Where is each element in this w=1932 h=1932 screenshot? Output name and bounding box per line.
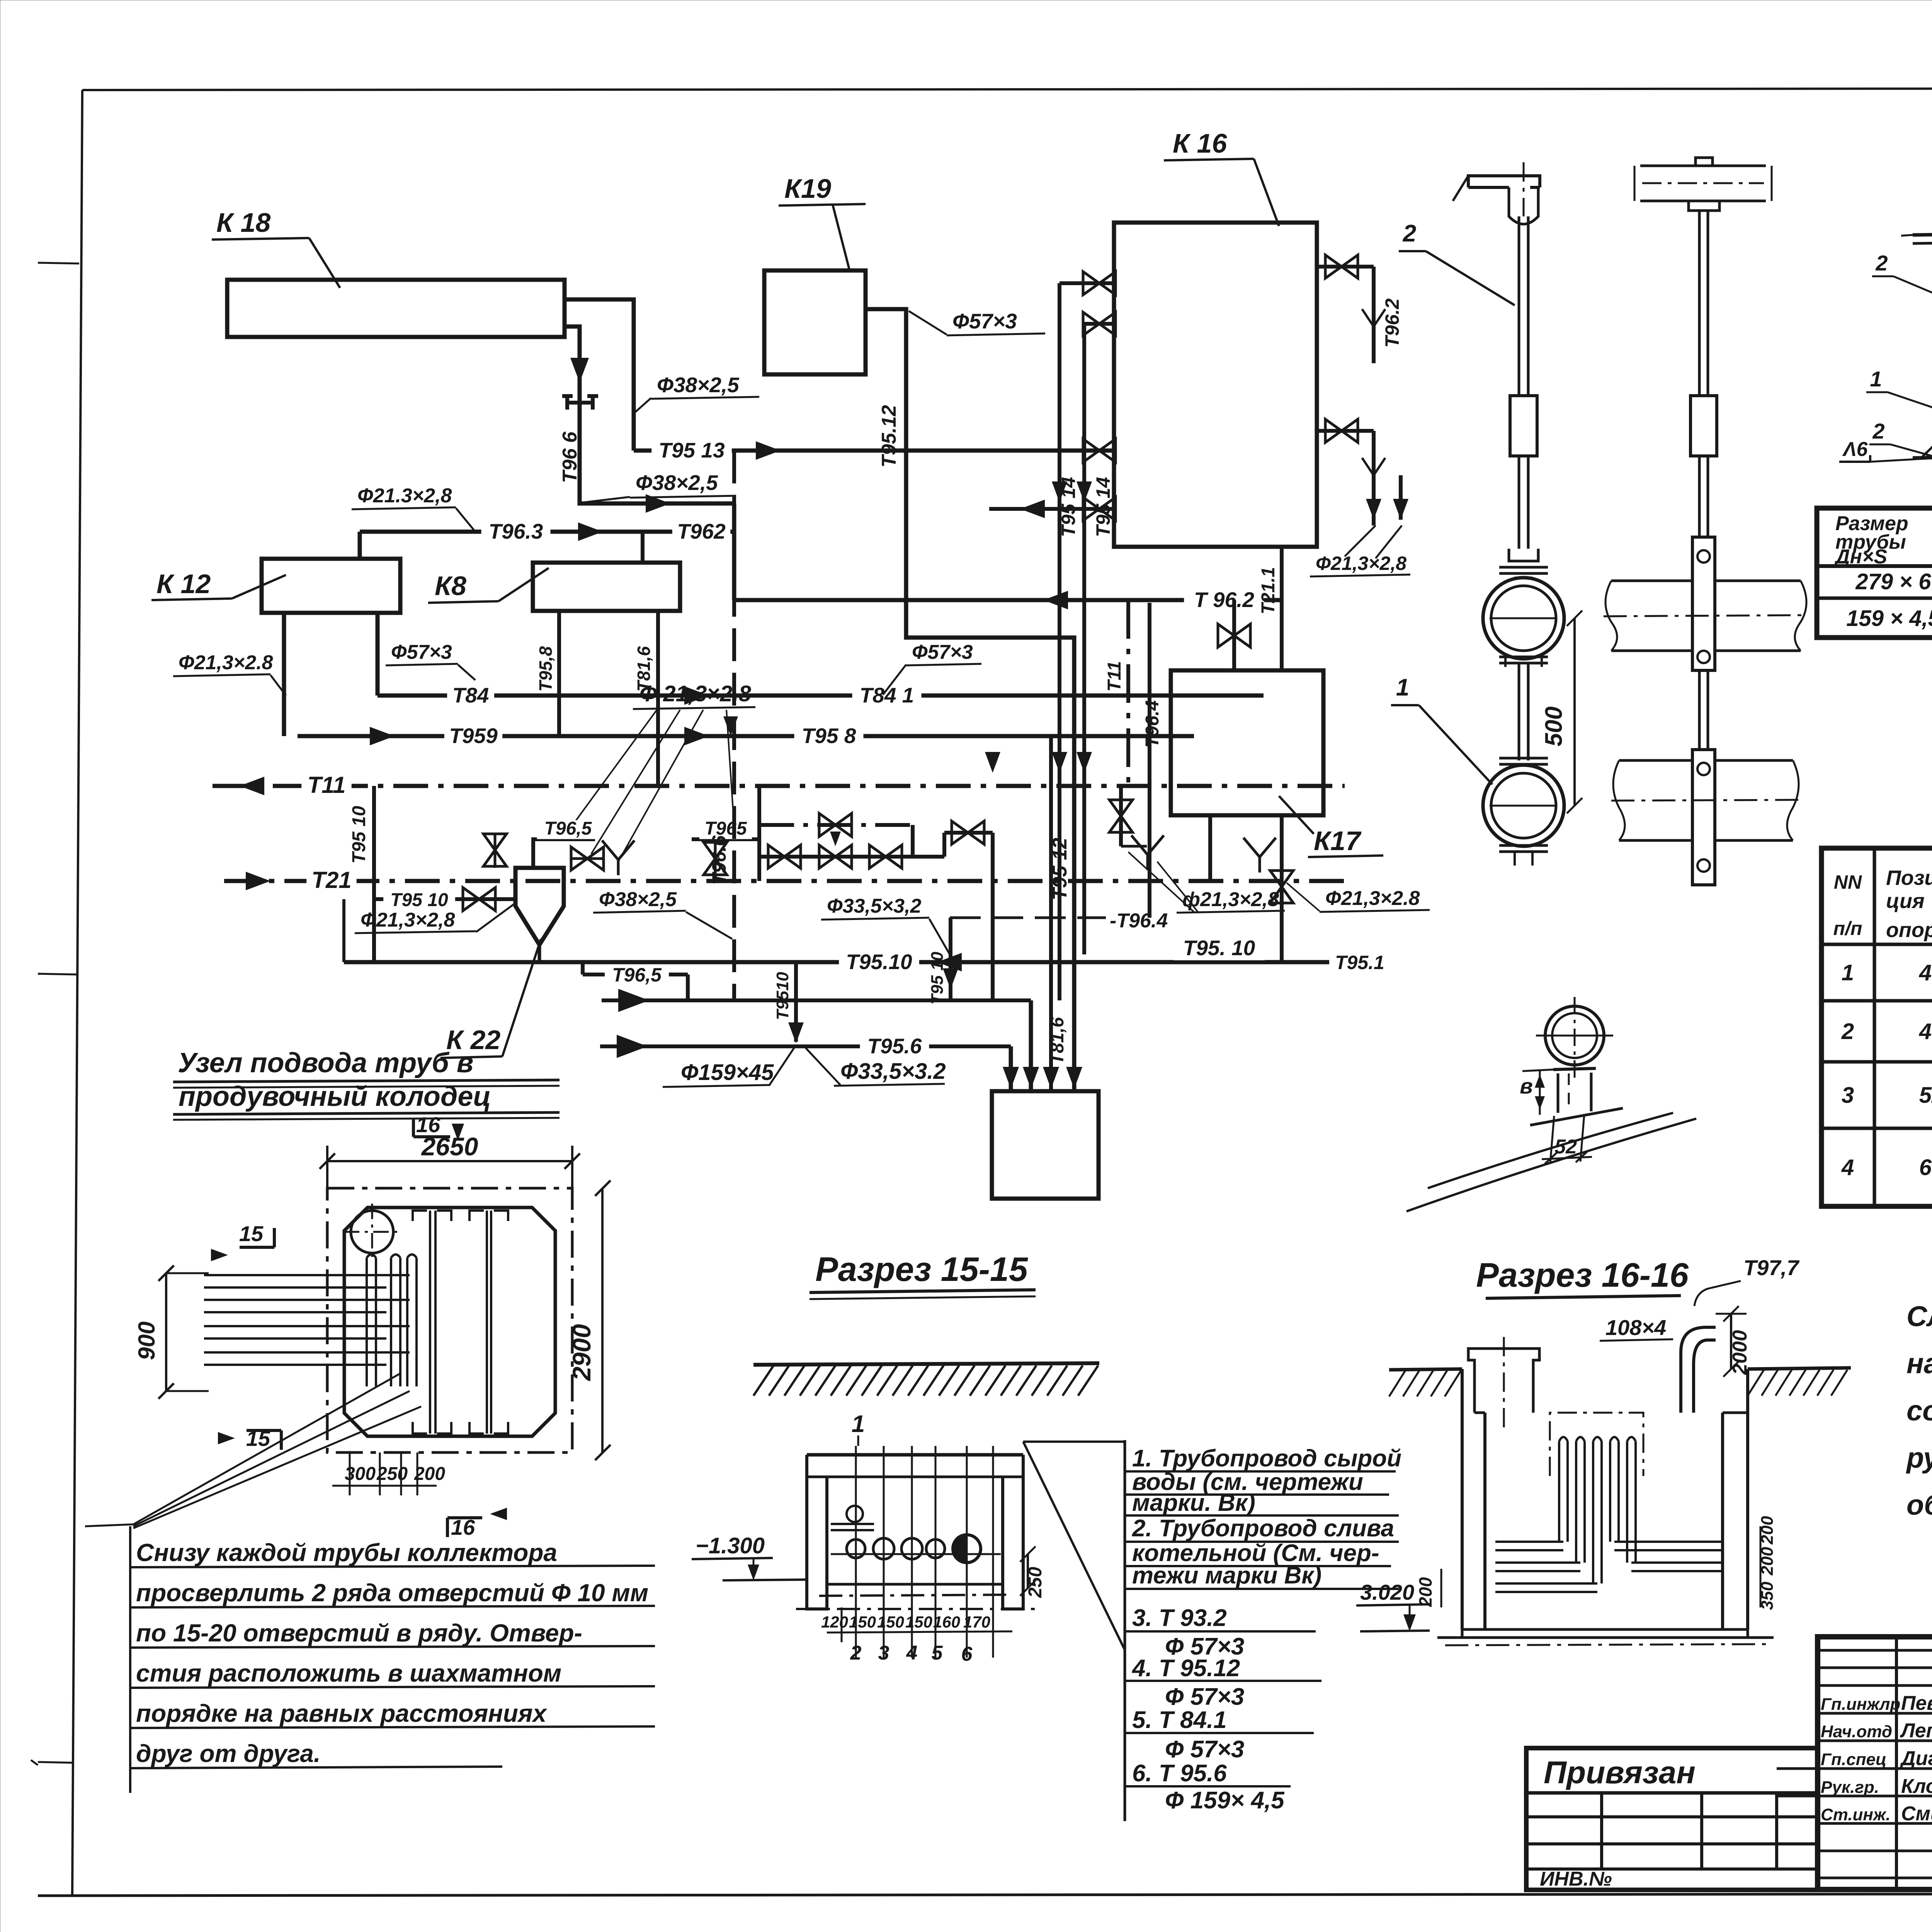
svg-text:Смирнова: Смирнова — [1901, 1803, 1932, 1825]
dim 2000 — [1730, 1314, 1732, 1369]
svg-text:4: 4 — [1841, 1155, 1854, 1180]
well walls 16-16 — [1462, 1369, 1485, 1629]
svg-text:Т95 13: Т95 13 — [658, 438, 724, 462]
svg-text:Т95,8: Т95,8 — [536, 646, 556, 692]
hanger right: pipe lower — [1619, 759, 1793, 762]
svg-text:Т84: Т84 — [452, 683, 489, 707]
T95.10 left vertical — [372, 786, 376, 962]
pipe T959 - T958 — [298, 734, 1194, 738]
column flange — [1913, 234, 1932, 235]
svg-text:3.020: 3.020 — [1360, 1580, 1414, 1604]
K16 right branch 2 — [1317, 429, 1374, 433]
svg-text:−1.300: −1.300 — [696, 1533, 765, 1558]
svg-text:52: 52 — [1554, 1136, 1577, 1158]
svg-text:160: 160 — [933, 1613, 960, 1631]
svg-text:Т81,6: Т81,6 — [1047, 1017, 1068, 1065]
T96.4 dashed segment — [950, 917, 1106, 919]
svg-text:2: 2 — [1872, 419, 1884, 443]
pipe T95.12 from K19 — [866, 309, 1074, 1091]
hanger right: link lower — [1698, 670, 1701, 750]
block K8 — [533, 563, 680, 611]
vertical T11 branch — [1126, 600, 1130, 786]
svg-text:Т96.4: Т96.4 — [1142, 700, 1163, 748]
svg-text:Разрез 16-16: Разрез 16-16 — [1476, 1256, 1689, 1294]
svg-text:Ф 159× 4,5: Ф 159× 4,5 — [1165, 1787, 1285, 1814]
svg-text:в: в — [1520, 1074, 1533, 1098]
svg-text:Певитон: Певитон — [1901, 1692, 1932, 1714]
svg-text:NN: NN — [1834, 871, 1862, 893]
svg-text:350: 350 — [1758, 1582, 1777, 1610]
svg-text:60: 60 — [1919, 1155, 1932, 1180]
hanger left: clevis 2 — [1509, 549, 1538, 561]
drain arrows right of K16 — [1393, 499, 1408, 520]
svg-text:со схемой, крепить по месту: со схемой, крепить по месту, армату- — [1906, 1395, 1932, 1427]
svg-text:6: 6 — [961, 1643, 973, 1665]
svg-text:Т95.10: Т95.10 — [846, 950, 912, 974]
svg-text:друг от друга.: друг от друга. — [136, 1740, 321, 1767]
dim 500 — [1573, 618, 1576, 806]
svg-text:Т95. 10: Т95. 10 — [1183, 936, 1255, 960]
svg-text:159 × 4,5: 159 × 4,5 — [1846, 606, 1932, 631]
feed line 2 T95.6 — [600, 1044, 1011, 1048]
svg-text:16: 16 — [416, 1112, 440, 1137]
svg-text:6. Т 95.6: 6. Т 95.6 — [1132, 1760, 1227, 1787]
hanger right: clamp plate upper — [1692, 537, 1715, 670]
svg-text:Ст.инж.: Ст.инж. — [1821, 1805, 1891, 1824]
vertical T96.4 branch — [1148, 603, 1151, 918]
drain funnels Y — [602, 840, 634, 875]
svg-text:Гп.спец: Гп.спец — [1821, 1750, 1886, 1769]
well plan outer wall (dash-dot) — [327, 1188, 572, 1452]
svg-text:Т95 10: Т95 10 — [928, 951, 947, 1005]
section mark 16 top — [452, 1124, 464, 1141]
sheet frame left border — [72, 90, 82, 1895]
block K19 — [764, 270, 866, 374]
svg-text:Т96,5: Т96,5 — [612, 964, 662, 986]
drop to K12 — [358, 532, 362, 559]
dim 250 — [1027, 1554, 1029, 1588]
hanger left: clevis — [1509, 187, 1538, 224]
tip II support inner circle — [1552, 1013, 1597, 1058]
table Tip II — [1821, 848, 1932, 1206]
svg-text:Сливные трубопроводы, не у: Сливные трубопроводы, не указанные — [1906, 1300, 1932, 1332]
svg-text:Ф57×3: Ф57×3 — [952, 309, 1017, 333]
chamber section 15-15 — [807, 1453, 1023, 1457]
svg-text:Т962: Т962 — [677, 519, 726, 543]
valve drain near K17 — [1119, 786, 1123, 846]
svg-text:Т95.6: Т95.6 — [867, 1034, 922, 1058]
svg-text:Т96.6: Т96.6 — [708, 835, 730, 885]
svg-text:Ф 57×3: Ф 57×3 — [1165, 1736, 1244, 1763]
hanger left: clamp circle 1 — [1483, 578, 1564, 659]
svg-text:К19: К19 — [784, 173, 831, 204]
svg-text:Ф21.3×2,8: Ф21.3×2,8 — [357, 485, 452, 507]
well bottom — [1462, 1629, 1748, 1638]
svg-text:Λ6: Λ6 — [1842, 438, 1868, 461]
svg-text:Т95 10: Т95 10 — [390, 890, 448, 910]
block K17 — [1171, 670, 1323, 815]
svg-text:Ф33,5×3.2: Ф33,5×3.2 — [840, 1059, 946, 1084]
dim 2900 — [601, 1188, 604, 1452]
svg-text:К 22: К 22 — [446, 1025, 500, 1055]
K17 bottom stubs — [1208, 815, 1212, 881]
hanger left: top bracket — [1468, 176, 1540, 187]
K8 stub T81.6 — [656, 611, 660, 786]
riser pipes in plan — [366, 1258, 368, 1386]
svg-text:52: 52 — [1919, 1083, 1932, 1108]
svg-text:Дигин: Дигин — [1900, 1747, 1932, 1770]
pipes legend list — [1124, 1440, 1126, 1821]
svg-text:Ф21,3×2.8: Ф21,3×2.8 — [1325, 887, 1420, 910]
manhole circle — [351, 1211, 393, 1253]
svg-text:Гп.инжлр: Гп.инжлр — [1821, 1695, 1900, 1714]
svg-text:2: 2 — [850, 1642, 862, 1664]
ground line 15-15 — [753, 1363, 1099, 1365]
svg-text:просверлить 2 ряда отверстий: просверлить 2 ряда отверстий Ф 10 мм — [136, 1579, 648, 1607]
T95 14 vertical 1 — [1058, 283, 1061, 1000]
svg-text:Клоков: Клоков — [1901, 1775, 1932, 1798]
svg-text:Нач.отд: Нач.отд — [1821, 1722, 1892, 1741]
svg-text:2: 2 — [1875, 251, 1888, 275]
T81.6 vertical to collector — [1049, 736, 1053, 1091]
svg-text:тежи марки Вк): тежи марки Вк) — [1132, 1562, 1321, 1589]
hanger right: clamp plate lower — [1692, 750, 1715, 885]
collector inlet arrows — [1003, 1067, 1019, 1089]
svg-text:Ф57×3: Ф57×3 — [912, 641, 973, 663]
svg-text:Ф21,3×2,8: Ф21,3×2,8 — [361, 909, 455, 931]
privyazan block — [1526, 1748, 1818, 1890]
svg-text:Ф159×45: Ф159×45 — [681, 1060, 774, 1085]
svg-text:Лепендин: Лепендин — [1900, 1719, 1932, 1742]
verticals to dim row — [855, 1446, 857, 1658]
well plan inner wall — [344, 1207, 555, 1436]
hanger right: beam — [1640, 166, 1766, 201]
funnel outlet drop — [538, 945, 541, 962]
svg-text:1: 1 — [1842, 960, 1854, 985]
T95.10 drop vertical mid — [949, 918, 952, 1000]
svg-text:К17: К17 — [1314, 826, 1362, 856]
T21.1 vertical — [1280, 547, 1284, 670]
svg-text:108×4: 108×4 — [1605, 1315, 1666, 1340]
svg-text:5: 5 — [932, 1642, 943, 1664]
svg-text:Т96.3: Т96.3 — [489, 519, 543, 543]
svg-text:Ф38×2,5: Ф38×2,5 — [599, 888, 677, 911]
svg-text:200: 200 — [414, 1464, 445, 1484]
valve battery between T11 and T21 — [757, 786, 761, 857]
svg-text:Т9510: Т9510 — [773, 972, 792, 1020]
svg-text:500: 500 — [1541, 706, 1567, 746]
pipe bundle entering well — [204, 1274, 410, 1276]
well neck 16-16 — [1468, 1349, 1539, 1413]
ground 16-16 — [1389, 1369, 1462, 1370]
K16 right branch 1 — [1317, 265, 1374, 269]
channel divider 2 — [486, 1211, 488, 1434]
hanger weight table — [1817, 508, 1932, 638]
svg-text:К 12: К 12 — [156, 569, 211, 599]
svg-text:Пози-: Пози- — [1886, 866, 1932, 889]
T96.5 jog on T95.10 — [581, 962, 585, 975]
feed line 1 to collector — [602, 998, 1031, 1002]
svg-text:Т11: Т11 — [308, 772, 346, 798]
svg-text:3: 3 — [878, 1642, 889, 1664]
hanger right: pipe upper (section) — [1611, 580, 1801, 582]
channel divider 1 — [429, 1211, 431, 1434]
svg-text:48: 48 — [1919, 1019, 1932, 1044]
hanger left: turnbuckle — [1510, 396, 1537, 456]
column base — [1913, 457, 1932, 458]
svg-text:продувочный колодец: продувочный колодец — [179, 1081, 491, 1112]
K12 stub left — [282, 613, 286, 736]
block K16 — [1114, 223, 1317, 547]
T96.5 stubs above funnel — [533, 839, 595, 868]
dim 900 — [165, 1273, 167, 1391]
valve above K17 — [1232, 600, 1236, 670]
dim 2650 — [327, 1160, 572, 1162]
svg-text:Ф 57×3: Ф 57×3 — [1165, 1684, 1244, 1710]
svg-text:1. Трубопровод сырой: 1. Трубопровод сырой — [1132, 1445, 1401, 1472]
funnel K22 — [515, 868, 564, 945]
svg-text:2: 2 — [1403, 220, 1416, 247]
svg-text:Т97,7: Т97,7 — [1743, 1255, 1800, 1280]
svg-text:1: 1 — [1870, 367, 1882, 391]
svg-text:ИНВ.№: ИНВ.№ — [1540, 1868, 1612, 1890]
bottom dims 300 250 200 — [349, 1452, 351, 1495]
svg-text:150: 150 — [905, 1613, 932, 1631]
section mark 16 bottom — [490, 1508, 507, 1520]
svg-text:Т95.12: Т95.12 — [878, 405, 900, 468]
svg-text:Т96.2: Т96.2 — [1381, 298, 1403, 348]
small pipe circles — [847, 1506, 863, 1522]
svg-text:обслуживания.: обслуживания. — [1906, 1489, 1932, 1521]
hanger left: rod lower — [1518, 456, 1520, 549]
svg-text:Ф57×3: Ф57×3 — [391, 641, 452, 663]
svg-text:250: 250 — [1025, 1567, 1046, 1598]
svg-text:ру располагать в местах, у: ру располагать в местах, удобных для — [1906, 1442, 1932, 1474]
svg-text:Т95.1: Т95.1 — [1335, 952, 1384, 973]
svg-text:4: 4 — [906, 1642, 918, 1664]
svg-text:Ф21,3×2.8: Ф21,3×2.8 — [179, 651, 273, 674]
svg-text:Т96,5: Т96,5 — [544, 818, 592, 839]
T95 14 vertical 2 — [1082, 324, 1086, 954]
loop vertical — [342, 899, 345, 962]
sheet frame bottom border — [38, 1893, 1932, 1896]
svg-text:опоры: опоры — [1886, 918, 1932, 942]
svg-text:3. Т 93.2: 3. Т 93.2 — [1132, 1605, 1227, 1631]
block K12 — [262, 559, 400, 613]
svg-text:Т 96.2: Т 96.2 — [1194, 588, 1254, 612]
svg-text:Т21: Т21 — [311, 867, 351, 893]
svg-text:5. Т 84.1: 5. Т 84.1 — [1132, 1707, 1227, 1733]
svg-text:200: 200 — [1758, 1547, 1777, 1576]
svg-text:Т21.1: Т21.1 — [1258, 567, 1279, 614]
svg-text:-Т96.4: -Т96.4 — [1110, 910, 1168, 932]
vertical T962 drop — [732, 532, 736, 600]
K8 stub T95.8 — [557, 611, 561, 736]
tip II support: pipe circle — [1545, 1006, 1604, 1065]
svg-text:900: 900 — [134, 1321, 160, 1360]
svg-text:Т84 1: Т84 1 — [860, 683, 914, 707]
orifice flag — [562, 396, 598, 410]
svg-text:45: 45 — [1919, 960, 1932, 985]
svg-text:Т95 8: Т95 8 — [802, 724, 856, 748]
svg-text:1: 1 — [1396, 674, 1409, 701]
tip II support: boiler shell — [1530, 1108, 1623, 1125]
boiler block K18 — [227, 280, 565, 337]
svg-text:150: 150 — [849, 1613, 876, 1631]
svg-text:Привязан: Привязан — [1544, 1755, 1696, 1790]
svg-text:Ф38×2,5: Ф38×2,5 — [636, 471, 718, 495]
svg-text:Т959: Т959 — [449, 724, 498, 748]
svg-text:170: 170 — [963, 1613, 990, 1631]
svg-text:300: 300 — [345, 1464, 376, 1484]
svg-text:200: 200 — [1415, 1577, 1435, 1607]
svg-text:120: 120 — [821, 1613, 848, 1631]
svg-text:ция: ция — [1886, 889, 1925, 913]
tip II support: stand — [1553, 1068, 1596, 1070]
svg-text:Т95 10: Т95 10 — [349, 806, 369, 864]
pipe T96.3 - T962 — [360, 530, 734, 534]
hanger left: clamp circle 2 — [1499, 758, 1548, 764]
svg-text:порядке на равных расстояни: порядке на равных расстояниях — [136, 1699, 548, 1727]
leader lines from pipes to note — [133, 1374, 400, 1524]
svg-text:Т96 6: Т96 6 — [559, 431, 581, 483]
dims 350 200 200 right — [1760, 1526, 1762, 1607]
riser pipes 16-16 — [1558, 1441, 1560, 1542]
svg-text:Ф38×2,5: Ф38×2,5 — [657, 373, 740, 397]
tip II support: dim 52 — [1550, 1116, 1554, 1163]
drop to K8 — [641, 532, 645, 563]
valves at K16 left — [1060, 281, 1114, 285]
collector box — [992, 1091, 1099, 1199]
K18 drain line T96.6 — [565, 327, 734, 503]
svg-text:2: 2 — [1841, 1019, 1854, 1044]
svg-text:200: 200 — [1758, 1516, 1777, 1545]
title block — [1818, 1637, 1932, 1889]
svg-text:279 × 6: 279 × 6 — [1855, 569, 1931, 594]
svg-text:Т11: Т11 — [1104, 661, 1125, 692]
dashed collector rect — [1550, 1413, 1643, 1476]
horizontal pipes 16-16 — [1495, 1541, 1563, 1543]
svg-text:К8: К8 — [435, 571, 466, 601]
svg-text:по 15-20 отверстий в ряду.: по 15-20 отверстий в ряду. Отвер- — [136, 1619, 582, 1647]
hanger left: link — [1518, 663, 1520, 760]
svg-text:ф21,3×2,8: ф21,3×2,8 — [1182, 888, 1279, 911]
drop T95.10 to T95.6 — [794, 962, 798, 1042]
svg-text:Рук.гр.: Рук.гр. — [1821, 1778, 1879, 1797]
svg-text:1: 1 — [852, 1411, 865, 1437]
svg-text:стия расположить в шахматно: стия расположить в шахматном — [136, 1659, 561, 1687]
svg-text:4. Т 95.12: 4. Т 95.12 — [1131, 1655, 1240, 1682]
svg-text:Снизу каждой трубы коллекто: Снизу каждой трубы коллектора — [136, 1539, 557, 1566]
svg-text:К 16: К 16 — [1173, 128, 1227, 158]
svg-text:150: 150 — [877, 1613, 904, 1631]
K12 stub right — [376, 613, 380, 696]
pipe T95 13 — [634, 449, 1114, 453]
svg-text:Узел подвода труб в: Узел подвода труб в — [178, 1048, 473, 1078]
svg-text:п/п: п/п — [1833, 918, 1862, 939]
svg-text:Дн×S: Дн×S — [1834, 546, 1887, 568]
svg-text:15: 15 — [239, 1221, 264, 1246]
hanger left: rod upper — [1518, 216, 1520, 396]
sheet frame top border — [82, 88, 1932, 90]
T96.6 dashed vertical — [732, 451, 736, 1000]
svg-text:К 18: К 18 — [216, 207, 270, 238]
svg-text:2. Трубопровод слива: 2. Трубопровод слива — [1132, 1515, 1394, 1542]
svg-text:Ф21,3×2,8: Ф21,3×2,8 — [1316, 553, 1406, 574]
svg-text:3: 3 — [1842, 1083, 1854, 1108]
hanger right: rod — [1698, 211, 1701, 396]
K18 right loop — [565, 299, 634, 451]
pipe T21 — [224, 879, 1345, 883]
svg-text:Разрез 15-15: Разрез 15-15 — [815, 1250, 1028, 1288]
svg-text:250: 250 — [376, 1464, 408, 1484]
vertical after valve — [991, 833, 995, 1000]
pipe T11 — [213, 784, 1345, 788]
svg-text:на чертежах, выполнить в соотв: на чертежах, выполнить в соответствии — [1906, 1347, 1932, 1379]
svg-text:2900: 2900 — [567, 1324, 596, 1381]
svg-text:Ф33,5×3,2: Ф33,5×3,2 — [827, 895, 922, 917]
svg-text:марки. Вк): марки. Вк) — [1132, 1490, 1255, 1516]
hanger right: turnbuckle — [1690, 396, 1717, 456]
pipe T95.10 long — [344, 960, 1329, 964]
